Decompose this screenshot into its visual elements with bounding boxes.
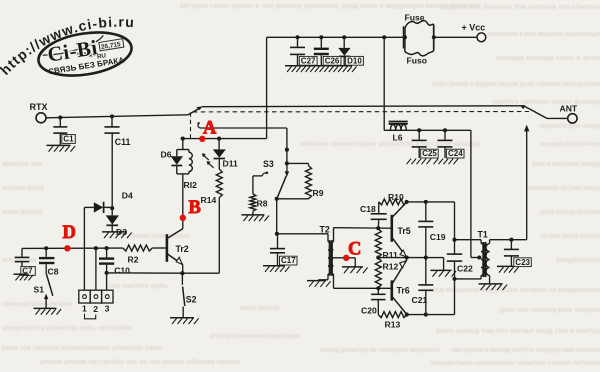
dashed gang line bbox=[193, 111, 529, 113]
label pin 1 bbox=[82, 303, 87, 313]
wire R8 to ground bbox=[252, 211, 254, 215]
junction at C11 bbox=[110, 114, 114, 118]
svg-text:D10: D10 bbox=[347, 56, 362, 65]
svg-text:C19: C19 bbox=[430, 232, 446, 242]
label pin 2 bbox=[93, 304, 98, 314]
capacitor C23 bbox=[504, 240, 519, 267]
capacitor C8 (thick) bbox=[39, 248, 54, 273]
junction on rail at D10 bbox=[342, 35, 346, 39]
svg-text:R10: R10 bbox=[388, 192, 404, 202]
ground stub mid rail bbox=[443, 258, 445, 271]
wire collector rail Tr5 bbox=[407, 201, 455, 203]
resistor R9 bbox=[306, 166, 312, 199]
svg-text:обмотка транзисторах усилитель: обмотка транзисторах усилитель ключ реле… bbox=[300, 139, 481, 148]
label R13 bbox=[385, 320, 401, 330]
label RTX bbox=[30, 102, 48, 112]
svg-text:C11: C11 bbox=[115, 137, 131, 147]
svg-text:передатчика напряжение обмотка: передатчика напряжение обмотка сигнал пи… bbox=[430, 358, 600, 367]
wire R9 top bbox=[287, 163, 309, 165]
label C18 bbox=[360, 204, 376, 214]
ground under S2 bbox=[170, 318, 199, 324]
junction base rail bottom bbox=[376, 286, 380, 290]
svg-text:T2: T2 bbox=[320, 225, 330, 235]
ground under S1 bbox=[34, 308, 62, 314]
junction C10 bottom bbox=[105, 271, 109, 275]
svg-text:C27: C27 bbox=[301, 56, 316, 65]
svg-text:ток частота цепь: ток частота цепь bbox=[108, 281, 169, 290]
label R11 bbox=[383, 250, 399, 260]
svg-text:напряжение в реле мощности рад: напряжение в реле мощности радиостанции bbox=[488, 29, 600, 38]
wire to T2 primary bbox=[277, 233, 328, 235]
svg-text:3: 3 bbox=[105, 303, 110, 313]
label C27 bbox=[299, 56, 317, 65]
wire node A horizontal bbox=[200, 127, 287, 129]
logo Ci-Bi oval bbox=[35, 26, 134, 81]
label S2 bbox=[186, 295, 197, 305]
T2 centre tap to ground node C bbox=[334, 258, 356, 267]
wire T2 sec bottom to Tr6 base bbox=[334, 287, 392, 289]
capacitor C17 bbox=[270, 234, 285, 266]
ground under C25 bbox=[407, 159, 432, 165]
label C19 bbox=[430, 232, 446, 242]
svg-text:RTX: RTX bbox=[30, 102, 48, 112]
svg-text:ключ режим в радиостанции дело: ключ режим в радиостанции дело обмотка п… bbox=[432, 79, 600, 88]
junction D4-C11 bbox=[110, 206, 114, 210]
label node A bbox=[203, 118, 217, 138]
transformer T1 primary bbox=[481, 240, 485, 279]
label D6 bbox=[161, 150, 172, 160]
svg-text:C22: C22 bbox=[457, 263, 473, 273]
junction dot at D6 top bbox=[181, 137, 185, 141]
svg-text:обмотка том: обмотка том bbox=[2, 159, 42, 168]
junction C23 bbox=[509, 238, 513, 242]
connector X1 (3 pins) bbox=[79, 290, 113, 303]
bracket pins 1-2 bbox=[85, 314, 96, 319]
svg-text:ANT: ANT bbox=[560, 104, 578, 114]
wire vertical from top rail to node A area bbox=[266, 37, 268, 138]
wire D6 bottom to Tr2 collector bbox=[182, 174, 184, 229]
junction T1 top feed bbox=[452, 238, 456, 242]
label L6 bbox=[393, 132, 403, 142]
diode D11 (with arrows) bbox=[213, 139, 226, 170]
ground under C1 bbox=[47, 145, 76, 151]
label C24 bbox=[447, 149, 465, 158]
wire antenna riser bbox=[524, 125, 529, 240]
svg-text:дело том обмотка реле катушка: дело том обмотка реле катушка bbox=[500, 305, 600, 314]
switch S3 blade bbox=[277, 176, 286, 198]
wire C22 rail upper bbox=[454, 202, 456, 254]
resistor R2 bbox=[123, 245, 152, 251]
junction emitters bbox=[405, 256, 409, 260]
svg-text:R12: R12 bbox=[383, 261, 399, 271]
svg-text:диод контур антенна: диод контур антенна bbox=[540, 207, 600, 216]
logo URL arc text bbox=[0, 14, 135, 78]
label D4 bbox=[122, 191, 133, 201]
svg-text:S2: S2 bbox=[186, 295, 197, 305]
junction S3 lower bbox=[285, 161, 289, 165]
switch S2 bbox=[182, 273, 184, 318]
svg-text:D11: D11 bbox=[223, 159, 239, 169]
junction at C1 bbox=[58, 115, 62, 119]
S3 pivot arrow bbox=[285, 171, 290, 176]
svg-text:транзисторах антенна: транзисторах антенна bbox=[130, 231, 191, 240]
capacitor C20 bbox=[371, 288, 385, 314]
ground under D3 bbox=[102, 232, 132, 238]
svg-text:реле ток частота переключение: реле ток частота переключение резистор с… bbox=[2, 343, 163, 352]
S1 fixed with arrow bbox=[44, 294, 48, 309]
svg-text:1: 1 bbox=[82, 303, 87, 313]
wire L6 feed drop bbox=[383, 37, 385, 130]
svg-text:ключ выход: ключ выход bbox=[2, 207, 42, 216]
svg-text:C24: C24 bbox=[448, 149, 463, 158]
label Tr6 bbox=[397, 285, 410, 295]
transformer T1 core bbox=[483, 242, 485, 277]
transformer T1 secondary bbox=[486, 240, 490, 284]
diode D10 bbox=[338, 37, 350, 66]
capacitor C22 bbox=[447, 254, 462, 261]
svg-text:D3: D3 bbox=[116, 227, 127, 237]
wire top supply rail bbox=[267, 36, 477, 38]
junction C19 top bbox=[424, 200, 428, 204]
terminal +Vcc bbox=[477, 33, 486, 42]
junction C10 bbox=[105, 246, 109, 250]
inductor branch R12 bbox=[189, 150, 192, 174]
svg-text:C23: C23 bbox=[515, 258, 530, 267]
svg-text:D6: D6 bbox=[161, 150, 172, 160]
svg-text:настройка: настройка bbox=[2, 255, 37, 264]
node A red dot bbox=[199, 136, 205, 142]
svg-text:S1: S1 bbox=[34, 284, 45, 294]
svg-text:C: C bbox=[348, 239, 361, 259]
label node D bbox=[63, 223, 76, 243]
svg-text:Tr5: Tr5 bbox=[398, 226, 411, 236]
resistor R11 bbox=[375, 229, 381, 258]
D11 LED arrows bbox=[202, 153, 214, 168]
wire R14 bottom to emitter node bbox=[182, 198, 219, 274]
wire T1 secondary top bbox=[490, 239, 527, 241]
ground under C17 bbox=[263, 266, 290, 272]
diode D6 bbox=[171, 150, 183, 174]
label C17 bbox=[280, 256, 298, 265]
arrow tip at ANT blade bbox=[520, 105, 526, 109]
ground under T2 primary bbox=[307, 281, 331, 287]
inductor L6 bbox=[389, 122, 408, 131]
svg-text:C8: C8 bbox=[48, 267, 59, 277]
label D11 bbox=[223, 159, 239, 169]
label Fuse bbox=[405, 13, 425, 23]
junction on rail at C27 bbox=[295, 35, 299, 39]
junction at C17 bbox=[275, 232, 279, 236]
ground under C7 bbox=[14, 274, 34, 280]
svg-text:C17: C17 bbox=[281, 256, 296, 265]
ground mid rail bbox=[431, 270, 457, 276]
svg-text:резистор переключение радиоста: резистор переключение радиостанции bbox=[210, 331, 300, 340]
svg-text:R2: R2 bbox=[128, 254, 139, 264]
terminal ANT bbox=[568, 114, 577, 123]
junction connector pin2 bbox=[94, 246, 98, 250]
svg-text:C1: C1 bbox=[63, 135, 74, 144]
capacitor C24 bbox=[438, 130, 453, 158]
label T1 bbox=[478, 229, 488, 239]
wire to T1 primary bottom bbox=[455, 278, 482, 280]
transistor Tr2 bbox=[167, 229, 183, 265]
junction mid rail R11-R12 bbox=[376, 256, 380, 260]
junction T1 bottom feed bbox=[452, 277, 456, 281]
svg-text:каскада каскада ключ в реле: каскада каскада ключ в реле bbox=[496, 53, 600, 62]
label T2 bbox=[320, 225, 330, 235]
svg-text:R14: R14 bbox=[201, 195, 217, 205]
wire T2 sec top to Tr5 base bbox=[334, 227, 392, 230]
resistor R12b bbox=[375, 258, 381, 288]
wire to ANT terminal bbox=[547, 117, 568, 119]
svg-text:C18: C18 bbox=[360, 204, 376, 214]
switch blade ANT side bbox=[525, 107, 547, 119]
label R9 bbox=[313, 188, 324, 198]
node D red dot bbox=[64, 245, 70, 251]
capacitor C19 bbox=[418, 202, 433, 258]
D6-R12 top bar bbox=[177, 149, 189, 151]
wire main changeover line bbox=[202, 105, 525, 108]
label C11 bbox=[115, 137, 131, 147]
svg-text:напряжение питание том антенна: напряжение питание том антенна что обмот… bbox=[440, 2, 600, 11]
label C26 bbox=[323, 56, 341, 65]
svg-text:R8: R8 bbox=[257, 199, 268, 209]
svg-text:что реле контур несущая: что реле контур несущая bbox=[540, 231, 600, 240]
capacitor C10 (thick) bbox=[99, 248, 114, 290]
wire node A to S3 bbox=[286, 128, 288, 175]
svg-text:конденсатор: конденсатор bbox=[556, 255, 600, 264]
svg-text:частота питание схема фильтр: частота питание схема фильтр bbox=[492, 97, 600, 106]
wire input line bbox=[22, 247, 123, 249]
resistor R8 bbox=[250, 194, 256, 211]
label R2 bbox=[128, 254, 139, 264]
wire C24 to T1 centre tap bbox=[471, 130, 479, 257]
svg-text:C20: C20 bbox=[361, 305, 377, 315]
wire emitter mid rail bbox=[378, 257, 443, 259]
wire connector pin2 lead bbox=[95, 248, 97, 290]
label S3 bbox=[263, 159, 274, 169]
wire D6 top lead bbox=[182, 139, 184, 150]
label node C bbox=[348, 239, 361, 259]
D6-R12 bottom bar bbox=[177, 173, 189, 175]
label C8 bbox=[48, 267, 59, 277]
svg-text:том мощности модуляция питание: том мощности модуляция питание на конден… bbox=[432, 285, 600, 294]
wire connector pin1 lead / D4 vertical bbox=[83, 207, 85, 290]
ground under C23 bbox=[497, 266, 519, 272]
label +Vcc bbox=[462, 23, 486, 33]
svg-text:RI2: RI2 bbox=[184, 180, 198, 190]
capacitor C18 bbox=[371, 202, 387, 228]
svg-text:D4: D4 bbox=[122, 191, 133, 201]
svg-text:выход резистор на смещение мощ: выход резистор на смещение мощности bbox=[320, 345, 440, 354]
capacitor C7 bbox=[15, 248, 30, 274]
wire to T1 primary top bbox=[455, 239, 482, 241]
junction C21 bottom bbox=[424, 313, 428, 317]
capacitor C11 bbox=[104, 116, 119, 208]
label D10 bbox=[346, 56, 364, 65]
capacitor C26 (thick plates) bbox=[314, 37, 329, 66]
junction R10 right bbox=[405, 200, 409, 204]
wire down to C17 junction bbox=[276, 199, 278, 234]
wire L6 to C24 junction bbox=[384, 129, 471, 131]
junction on rail at C26 bbox=[319, 35, 323, 39]
wire C22 rail lower bbox=[454, 261, 456, 315]
svg-text:настройка фильтр: настройка фильтр bbox=[2, 183, 44, 192]
svg-text:R13: R13 bbox=[385, 320, 401, 330]
label C10 bbox=[114, 266, 130, 276]
svg-text:C21: C21 bbox=[412, 295, 428, 305]
label Tr5 bbox=[398, 226, 411, 236]
junction emitter node bbox=[180, 271, 184, 275]
junction C8 bbox=[44, 246, 48, 250]
contact hook at wire A bbox=[197, 122, 200, 128]
label C22 bbox=[457, 263, 473, 273]
svg-text:R9: R9 bbox=[313, 188, 324, 198]
junction dot at D11 top bbox=[217, 137, 221, 141]
svg-text:+ Vcc: + Vcc bbox=[462, 23, 486, 33]
svg-text:ключ выход том что сигнал вход: ключ выход том что сигнал вход том в кон… bbox=[436, 326, 600, 335]
resistor R10 bbox=[379, 199, 407, 205]
svg-text:напряжение катушка выход: напряжение катушка выход bbox=[528, 183, 600, 192]
wire Tr2 emitter down bbox=[182, 265, 184, 274]
wire R2 to Tr2 base bbox=[152, 247, 167, 249]
capacitor C27 bbox=[290, 37, 305, 66]
svg-text:схема настройка питание: схема настройка питание bbox=[2, 299, 72, 308]
svg-text:схема что транзисторах: схема что транзисторах bbox=[240, 303, 280, 312]
svg-text:Fuse: Fuse bbox=[405, 13, 425, 23]
svg-text:конденсатор резистор цепь наст: конденсатор резистор цепь настройка bbox=[2, 323, 133, 332]
resistor R14 bbox=[216, 169, 222, 197]
ground under T1 secondary bbox=[479, 284, 508, 290]
transformer T2 primary bbox=[318, 234, 331, 280]
svg-text:C10: C10 bbox=[114, 266, 130, 276]
diode D3 bbox=[106, 208, 119, 232]
wire RTX to switch bbox=[46, 115, 188, 118]
ground under C27 C26 D10 bbox=[285, 66, 357, 72]
label C25 bbox=[421, 149, 439, 158]
junction on rail at L6 feed bbox=[382, 35, 386, 39]
capacitor C21 bbox=[418, 258, 433, 315]
junction T1 centre tap bbox=[477, 255, 481, 259]
dashed link down to lower wire bbox=[190, 113, 192, 139]
label C20 bbox=[361, 305, 377, 315]
junction Tr6 collector bbox=[405, 313, 409, 317]
svg-text:R11: R11 bbox=[383, 250, 399, 260]
svg-text:Tr6: Tr6 bbox=[397, 285, 410, 295]
svg-text:Tr2: Tr2 bbox=[176, 244, 189, 254]
switch blade RTX side bbox=[188, 106, 202, 114]
junction base rail top bbox=[376, 226, 380, 230]
svg-text:режим режим настройка что на т: режим режим настройка что на ток режим о… bbox=[40, 357, 240, 366]
svg-text:C26: C26 bbox=[325, 56, 340, 65]
diode D4 bbox=[84, 202, 112, 213]
label R12b bbox=[383, 261, 399, 271]
label R10 bbox=[388, 192, 404, 202]
label Tr2 bbox=[176, 244, 189, 254]
junction S3 upper bbox=[285, 148, 289, 152]
svg-text:T1: T1 bbox=[478, 229, 488, 239]
svg-text:Fuso: Fuso bbox=[407, 55, 428, 65]
label Fuso bbox=[407, 55, 428, 65]
label pin 3 bbox=[105, 303, 110, 313]
S3 fixed contact hook bbox=[262, 172, 268, 176]
svg-text:S3: S3 bbox=[263, 159, 274, 169]
junction blade bottom bbox=[275, 197, 279, 201]
fuse F1 symbol bbox=[403, 21, 436, 56]
svg-text:реле в смещение каскад: реле в смещение каскад bbox=[532, 159, 600, 168]
label ANT bbox=[560, 104, 578, 114]
label C7 bbox=[21, 267, 36, 276]
resistor R13 bbox=[378, 312, 407, 318]
wire hook to R8 bbox=[253, 176, 262, 194]
label RI2 bbox=[184, 180, 198, 190]
svg-text:настройка в каскад частота пер: настройка в каскад частота передатчика а… bbox=[452, 345, 600, 354]
svg-text:A: A bbox=[203, 118, 217, 138]
junction C24 bbox=[443, 128, 447, 132]
svg-text:C25: C25 bbox=[422, 149, 437, 158]
ground under R8 bbox=[241, 215, 269, 221]
svg-text:2: 2 bbox=[93, 304, 98, 314]
ground under C24 bbox=[434, 159, 459, 165]
terminal RTX bbox=[36, 113, 46, 123]
svg-text:D: D bbox=[63, 223, 76, 243]
svg-text:выходной диод усилитель: выходной диод усилитель bbox=[540, 139, 600, 148]
svg-text:катушка схема режим в том филь: катушка схема режим в том фильтр усилите… bbox=[180, 1, 481, 10]
wire emitter line bbox=[107, 272, 183, 274]
label C23 bbox=[514, 258, 532, 267]
wire lower node wire to D6 D11 bbox=[181, 138, 267, 140]
ground at node C bbox=[342, 267, 368, 273]
label R8 bbox=[257, 199, 268, 209]
wire collector rail Tr6 bbox=[407, 314, 455, 316]
capacitor C1 bbox=[53, 118, 67, 146]
transistor Tr5 bbox=[392, 202, 407, 257]
svg-text:L6: L6 bbox=[393, 132, 403, 142]
label D3 bbox=[116, 227, 127, 237]
capacitor C25 bbox=[412, 130, 427, 158]
transformer T2 secondary bbox=[330, 228, 334, 289]
svg-text:B: B bbox=[189, 198, 201, 218]
switch S1 blade bbox=[46, 273, 53, 296]
label R14 bbox=[201, 195, 217, 205]
junction C25 bbox=[417, 128, 421, 132]
node C red dot bbox=[343, 255, 349, 261]
label C1 bbox=[62, 135, 76, 144]
label C21 bbox=[412, 295, 428, 305]
transformer T2 core bbox=[330, 240, 332, 276]
label node B bbox=[189, 198, 201, 218]
transistor Tr6 bbox=[392, 260, 407, 315]
wire R9 bottom to blade junction bbox=[277, 198, 309, 200]
label S1 bbox=[34, 284, 45, 294]
node B red dot bbox=[180, 215, 186, 221]
junction mid rail C19-C21 bbox=[424, 256, 428, 260]
